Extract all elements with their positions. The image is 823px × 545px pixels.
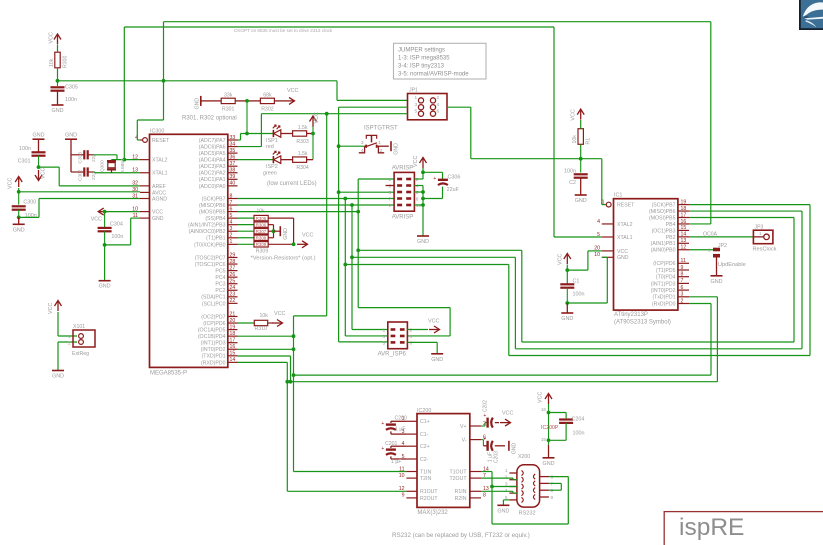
svg-text:100n: 100n <box>573 292 585 298</box>
resistor R304 1.5k <box>281 151 313 171</box>
svg-text:4: 4 <box>230 220 233 226</box>
ground (X101) <box>52 371 64 380</box>
connector JP1 <box>408 88 448 120</box>
svg-text:GND: GND <box>561 316 573 322</box>
svg-text:33k: 33k <box>224 92 233 98</box>
svg-text:AVRISP: AVRISP <box>392 166 414 172</box>
ground (stack) <box>280 226 289 240</box>
svg-text:15: 15 <box>230 351 236 357</box>
svg-text:C1-: C1- <box>420 432 429 438</box>
svg-text:(ADC3)PA3: (ADC3)PA3 <box>199 164 226 170</box>
svg-text:1-3: ISP mega8535: 1-3: ISP mega8535 <box>398 56 450 62</box>
svg-text:R306: R306 <box>256 222 267 227</box>
svg-text:VCC: VCC <box>274 311 285 317</box>
capacitor C306 22uF <box>423 172 460 198</box>
svg-text:8: 8 <box>416 197 419 203</box>
svg-text:(AIN0)PB0: (AIN0)PB0 <box>651 248 676 254</box>
wire X200 pin7-8 <box>549 483 561 490</box>
power VCC (AVRISP) <box>413 156 427 168</box>
svg-text:10k: 10k <box>260 313 269 319</box>
svg-text:3: 3 <box>383 334 386 340</box>
svg-text:4: 4 <box>416 184 419 190</box>
wire PD4 serial branch <box>238 335 294 337</box>
wire stack VCC net <box>268 218 295 246</box>
svg-text:(TXD)PD1: (TXD)PD1 <box>202 354 226 360</box>
svg-text:R1: R1 <box>586 138 592 145</box>
svg-text:(ADC4)PA4: (ADC4)PA4 <box>199 158 226 164</box>
svg-text:+: + <box>483 436 486 442</box>
svg-text:1.5k: 1.5k <box>298 125 308 131</box>
svg-text:R307: R307 <box>256 229 267 234</box>
svg-text:*Version-Resistors* (opt.): *Version-Resistors* (opt.) <box>251 256 316 262</box>
svg-text:(AIN0/OC0)PB2: (AIN0/OC0)PB2 <box>189 229 226 235</box>
svg-text:36: 36 <box>230 154 236 160</box>
svg-text:100n: 100n <box>19 146 31 152</box>
svg-text:18: 18 <box>681 206 687 212</box>
svg-text:33: 33 <box>230 135 236 141</box>
svg-text:MAX(3)232: MAX(3)232 <box>417 510 448 516</box>
svg-text:3: 3 <box>681 292 684 298</box>
IC300 right pins PA PB PC PD <box>188 135 237 366</box>
svg-text:16: 16 <box>230 344 236 350</box>
svg-text:R309: R309 <box>256 242 267 247</box>
svg-text:6: 6 <box>681 285 684 291</box>
svg-text:RESET: RESET <box>152 138 170 144</box>
svg-text:VCC: VCC <box>152 210 163 216</box>
svg-text:R302: R302 <box>261 106 274 112</box>
svg-text:ispRE: ispRE <box>679 514 744 541</box>
wire AVRISP pin3 stub <box>386 185 395 187</box>
svg-text:3-5: normal/AVRISP-mode: 3-5: normal/AVRISP-mode <box>398 72 469 78</box>
svg-text:(ADC5)PA5: (ADC5)PA5 <box>199 151 226 157</box>
svg-text:VCC: VCC <box>287 88 298 94</box>
svg-text:14: 14 <box>230 357 236 363</box>
capacitor C200 1uF <box>381 415 407 434</box>
svg-text:RS232: RS232 <box>519 511 536 517</box>
svg-text:25: 25 <box>230 279 236 285</box>
svg-text:red: red <box>266 144 274 150</box>
svg-text:UpdEnable: UpdEnable <box>718 262 746 268</box>
svg-text:AVRISP: AVRISP <box>392 214 414 220</box>
svg-text:JUMPER settings: JUMPER settings <box>398 48 445 54</box>
svg-text:9: 9 <box>402 493 405 499</box>
svg-text:XTAL2: XTAL2 <box>152 158 168 164</box>
svg-text:R310: R310 <box>255 326 268 332</box>
capacitor C300 100n <box>12 192 37 219</box>
wire RESET-8535 net top loop <box>162 22 711 224</box>
wire XTAL1 row <box>93 171 140 174</box>
svg-text:PB4: PB4 <box>666 222 676 228</box>
wire IC1 VCC net <box>565 251 601 284</box>
svg-text:38: 38 <box>230 168 236 174</box>
svg-text:(low current LEDs): (low current LEDs) <box>267 181 317 187</box>
power VCC (R300 top) <box>49 32 62 44</box>
svg-text:(SDA)PC1: (SDA)PC1 <box>201 295 225 301</box>
svg-text:C2: C2 <box>569 180 576 186</box>
svg-text:1: 1 <box>378 140 381 146</box>
wire MOSI net <box>238 179 795 342</box>
svg-text:6: 6 <box>437 109 440 115</box>
svg-text:VCC: VCC <box>49 32 55 43</box>
ground (C300) <box>13 217 25 233</box>
svg-text:GND: GND <box>543 461 555 467</box>
svg-text:(ADC7)PA7: (ADC7)PA7 <box>199 138 226 144</box>
power VCC right (C202) <box>500 411 513 427</box>
resistor R1 10k <box>572 120 592 159</box>
svg-text:1 µF: 1 µF <box>391 459 401 465</box>
svg-text:2: 2 <box>437 95 440 101</box>
crystal Q300 3.6864MHz <box>100 158 127 173</box>
svg-text:40: 40 <box>230 181 236 187</box>
wire IC1 GND net <box>565 257 607 305</box>
svg-text:ISPTGTRST: ISPTGTRST <box>364 126 398 132</box>
wire C303 to XTAL2 <box>93 155 117 160</box>
power VCC right (R310) <box>272 311 285 327</box>
ground (C2) <box>575 195 587 204</box>
svg-text:1: 1 <box>708 248 711 253</box>
resistors R305-R309 10k stack <box>238 209 269 255</box>
svg-text:10k: 10k <box>572 135 578 144</box>
wire RESET-8535 horizontal <box>58 80 338 82</box>
svg-text:XTAL2: XTAL2 <box>617 222 633 228</box>
node reset-8535 junction <box>56 79 60 83</box>
wire RESET net to JP1 pin1 <box>337 81 408 101</box>
svg-text:17: 17 <box>230 338 236 344</box>
svg-text:6: 6 <box>551 475 554 481</box>
svg-text:V-: V- <box>462 438 467 444</box>
svg-text:GND: GND <box>65 133 77 139</box>
svg-text:(ADC2)PA2: (ADC2)PA2 <box>199 171 226 177</box>
svg-text:ResClock: ResClock <box>753 247 777 253</box>
svg-text:R308: R308 <box>256 235 267 240</box>
svg-text:6: 6 <box>230 206 233 212</box>
label version resistors <box>251 256 316 262</box>
label RS232 note <box>392 532 530 539</box>
svg-text:PC5: PC5 <box>215 269 225 275</box>
svg-text:15: 15 <box>541 437 547 442</box>
svg-text:R2IN: R2IN <box>455 496 467 502</box>
power VCC down (AREF) <box>35 168 47 181</box>
svg-text:GND: GND <box>99 284 111 290</box>
svg-text:ISP1: ISP1 <box>266 138 278 144</box>
wire X101 pin2 <box>58 342 77 371</box>
svg-text:16: 16 <box>681 219 687 225</box>
wire AGND net <box>19 199 140 218</box>
svg-text:GND: GND <box>617 255 629 261</box>
svg-text:10k: 10k <box>49 58 55 67</box>
svg-text:14: 14 <box>681 232 687 238</box>
wire PD1 TXD net <box>238 356 293 384</box>
node R303-VCC junction <box>311 126 315 160</box>
svg-text:(TxD)PD1: (TxD)PD1 <box>652 295 675 301</box>
svg-text:(OC2)PD7: (OC2)PD7 <box>201 314 225 320</box>
resistor R302 68k <box>247 92 284 112</box>
title box ispRE <box>664 512 823 545</box>
svg-text:GND: GND <box>33 133 45 139</box>
IC1 right pins <box>649 199 689 307</box>
pushbutton ISPTGTRST <box>359 126 398 154</box>
wire PA7 to LED ISP1 <box>238 132 274 140</box>
power VCC left (VCC pin) <box>91 208 109 223</box>
svg-text:16: 16 <box>541 407 547 412</box>
svg-text:1: 1 <box>230 239 233 245</box>
svg-text:100n: 100n <box>564 169 576 175</box>
svg-text:1 µF: 1 µF <box>395 427 405 433</box>
wire R1IN to X200 pin4 <box>481 491 517 493</box>
jumper JP3 ResClock <box>753 225 777 253</box>
svg-text:VCC: VCC <box>302 232 313 238</box>
ground (button) <box>391 141 400 155</box>
svg-text:1: 1 <box>383 327 386 333</box>
power VCC (X101) <box>48 301 62 315</box>
svg-text:3: 3 <box>415 102 418 108</box>
capacitor C305 100n <box>51 81 78 105</box>
svg-text:(SS)PB4: (SS)PB4 <box>205 216 225 222</box>
svg-text:R1IN: R1IN <box>455 489 467 495</box>
svg-text:(MOSI)PB5: (MOSI)PB5 <box>199 210 226 216</box>
wire AVRISP VCC net <box>414 168 425 179</box>
svg-text:4: 4 <box>410 334 413 340</box>
svg-text:V+: V+ <box>460 424 467 430</box>
svg-text:VCC: VCC <box>91 217 102 223</box>
label low current LEDs <box>267 181 317 187</box>
IC U1 ATtiny2313 box <box>614 193 678 326</box>
svg-text:24: 24 <box>230 285 236 291</box>
IC1 left pins <box>594 199 635 261</box>
svg-text:29: 29 <box>230 252 236 258</box>
svg-text:2: 2 <box>410 327 413 333</box>
svg-text:35: 35 <box>230 148 236 154</box>
svg-text:X101: X101 <box>73 324 85 330</box>
svg-text:+: + <box>381 446 384 452</box>
svg-text:C1+: C1+ <box>420 419 430 425</box>
svg-text:5: 5 <box>389 190 392 196</box>
wire PD2 branch <box>238 348 294 350</box>
svg-text:10: 10 <box>399 473 405 479</box>
svg-text:GND: GND <box>194 98 200 110</box>
connector X101 ExtReg <box>68 324 95 357</box>
ground (crystal caps) <box>65 133 77 140</box>
svg-text:22uF: 22uF <box>447 187 460 193</box>
svg-text:AREF: AREF <box>152 184 166 190</box>
capacitor C203 1uF <box>481 436 505 463</box>
svg-text:GND: GND <box>511 443 517 455</box>
IC U300 MEGA8535-P box <box>150 128 228 376</box>
ground (C203) <box>509 441 518 455</box>
wire AVR_ISP6 pin6 gnd <box>407 342 437 353</box>
svg-text:(INT0)PD2: (INT0)PD2 <box>651 288 676 294</box>
svg-text:8: 8 <box>230 193 233 199</box>
svg-text:ISP2: ISP2 <box>266 164 278 170</box>
svg-text:12: 12 <box>399 486 405 492</box>
svg-text:15: 15 <box>681 225 687 231</box>
label R301 R302 optional <box>182 116 237 122</box>
ground (IC200P) <box>543 445 555 467</box>
svg-text:T2IN: T2IN <box>420 476 431 482</box>
svg-text:T1IN: T1IN <box>420 469 431 475</box>
svg-text:100n: 100n <box>65 97 77 103</box>
svg-text:37: 37 <box>230 161 236 167</box>
Eagle logo <box>799 0 823 30</box>
svg-text:IC300: IC300 <box>150 128 164 134</box>
svg-text:3: 3 <box>230 226 233 232</box>
wire serial cross line lower <box>287 297 717 382</box>
svg-text:+: + <box>381 421 384 427</box>
svg-text:(OC1A)PD5: (OC1A)PD5 <box>198 328 226 334</box>
svg-text:19: 19 <box>230 324 236 330</box>
wire X101 pin1 <box>58 312 77 336</box>
node R301-R302 junction <box>245 99 249 134</box>
power VCC (AVCC) <box>8 177 23 190</box>
svg-text:(ADC6)PA6: (ADC6)PA6 <box>199 144 226 150</box>
wire AVCC net <box>17 188 140 194</box>
svg-text:C201: C201 <box>385 441 398 447</box>
svg-text:7: 7 <box>551 481 554 487</box>
wire X200 pin5 gnd <box>503 500 509 505</box>
svg-text:R305: R305 <box>256 216 267 221</box>
svg-text:RESET: RESET <box>617 203 635 209</box>
svg-text:34: 34 <box>230 141 236 147</box>
svg-text:10: 10 <box>594 252 600 258</box>
svg-text:XTAL1: XTAL1 <box>617 235 633 241</box>
wire IC200P vcc <box>541 404 559 445</box>
svg-text:+: + <box>433 176 436 182</box>
svg-text:4: 4 <box>437 102 440 108</box>
resistor R301 33k <box>212 92 247 112</box>
svg-text:GND: GND <box>394 143 400 155</box>
svg-text:2: 2 <box>230 233 233 239</box>
svg-text:6: 6 <box>416 190 419 196</box>
svg-text:5: 5 <box>383 340 386 346</box>
svg-text:R304: R304 <box>296 165 309 171</box>
svg-text:13: 13 <box>681 238 687 244</box>
ground (AVR_ISP6) <box>431 354 443 363</box>
svg-text:2: 2 <box>380 148 383 154</box>
svg-text:AVCC: AVCC <box>152 190 166 196</box>
svg-text:C304: C304 <box>110 222 123 228</box>
svg-text:VCC: VCC <box>41 168 47 179</box>
svg-text:5: 5 <box>597 232 600 238</box>
svg-text:C204: C204 <box>572 416 585 422</box>
svg-text:9: 9 <box>681 265 684 271</box>
resistor R300 10k <box>49 45 69 81</box>
svg-text:11: 11 <box>681 258 686 264</box>
power VCC right (AVR_ISP6) <box>407 319 439 334</box>
svg-text:VCC: VCC <box>538 392 544 403</box>
svg-text:C202: C202 <box>483 400 489 412</box>
ground (C1) <box>561 303 573 322</box>
svg-text:100n: 100n <box>573 431 585 437</box>
svg-text:(ICP)PD6: (ICP)PD6 <box>653 261 675 267</box>
svg-text:9: 9 <box>389 203 392 209</box>
power VCC (LED resistors) <box>310 112 321 126</box>
svg-text:C203: C203 <box>494 451 500 463</box>
jumper JP2 UpdEnable <box>708 243 746 276</box>
svg-text:100n: 100n <box>111 234 123 240</box>
wire X200 pin6 loop <box>492 477 568 524</box>
svg-text:4: 4 <box>361 148 364 154</box>
svg-text:(RXD)PD0: (RXD)PD0 <box>201 360 226 366</box>
svg-text:C301: C301 <box>18 159 31 165</box>
svg-text:(SCK)PB7: (SCK)PB7 <box>202 196 226 202</box>
wire VCC row <box>103 210 140 214</box>
svg-text:+: + <box>483 413 486 419</box>
wire PD0 RXD net <box>238 362 407 491</box>
svg-text:39: 39 <box>230 174 236 180</box>
capacitor C302 22p <box>71 167 97 181</box>
svg-text:IC1: IC1 <box>614 193 622 199</box>
svg-text:(MOSI)PB5: (MOSI)PB5 <box>649 215 676 221</box>
wire 8535 RESET connection <box>137 81 163 140</box>
svg-text:GND: GND <box>431 357 443 363</box>
power VCC (IC200P) <box>538 392 553 404</box>
svg-text:C302: C302 <box>78 169 84 181</box>
svg-text:(SCL)PC0: (SCL)PC0 <box>202 301 226 307</box>
svg-text:1: 1 <box>759 231 762 236</box>
svg-text:10: 10 <box>416 203 422 209</box>
svg-text:CKOPT on 8535 must be set to d: CKOPT on 8535 must be set to drive 2313 … <box>234 28 333 33</box>
svg-text:R303: R303 <box>296 139 309 145</box>
svg-text:GND: GND <box>575 198 587 204</box>
svg-text:(MISO)PB6: (MISO)PB6 <box>649 209 676 215</box>
wire PB0 to JP2 <box>689 249 717 251</box>
svg-text:20: 20 <box>230 318 236 324</box>
svg-text:(RxD)PD0: (RxD)PD0 <box>652 301 676 307</box>
wire PA4 to LED ISP2 <box>238 159 274 161</box>
svg-text:GND: GND <box>13 227 25 233</box>
svg-text:PC2: PC2 <box>215 288 225 294</box>
svg-text:1: 1 <box>602 199 605 205</box>
wire gnd to caps <box>70 139 72 172</box>
svg-text:AGND: AGND <box>152 196 167 202</box>
wire serial cross line upper <box>294 304 712 376</box>
svg-text:R301: R301 <box>222 106 235 112</box>
svg-text:8: 8 <box>681 272 684 278</box>
wire T2OUT to X200 pin2 <box>481 478 517 480</box>
svg-text:8: 8 <box>483 493 486 499</box>
ground (X200) <box>497 505 509 514</box>
wire PB2 OC0A to JP3 <box>689 231 753 237</box>
svg-text:VCC: VCC <box>557 254 563 265</box>
svg-text:6: 6 <box>410 340 413 346</box>
svg-text:(TOSC1)PC6: (TOSC1)PC6 <box>195 262 226 268</box>
svg-text:OC0A: OC0A <box>703 231 718 237</box>
svg-text:11: 11 <box>399 466 404 472</box>
svg-text:3: 3 <box>361 140 364 146</box>
svg-text:17: 17 <box>681 212 687 218</box>
svg-text:8: 8 <box>551 488 554 494</box>
svg-text:XTAL1: XTAL1 <box>152 171 168 177</box>
wire stack GND net <box>268 225 280 238</box>
svg-text:green: green <box>263 170 277 176</box>
wire JP1-pin5 serial net <box>238 112 408 472</box>
wire T1OUT to X200 pin3 <box>481 472 517 525</box>
svg-text:GND: GND <box>52 374 64 380</box>
svg-text:C306: C306 <box>448 175 461 181</box>
svg-text:C305: C305 <box>65 85 78 91</box>
svg-text:23: 23 <box>230 292 236 298</box>
ground (AVRISP) <box>417 236 429 245</box>
svg-text:3-4: ISP tiny2313: 3-4: ISP tiny2313 <box>398 64 445 70</box>
svg-text:1: 1 <box>389 177 392 183</box>
svg-text:7: 7 <box>681 278 684 284</box>
svg-text:27: 27 <box>230 265 236 271</box>
svg-text:C1: C1 <box>573 279 580 285</box>
svg-text:(ADC0)PA0: (ADC0)PA0 <box>199 184 226 190</box>
svg-text:3: 3 <box>389 184 392 190</box>
node AREF junction <box>37 165 41 169</box>
svg-text:68k: 68k <box>263 92 272 98</box>
